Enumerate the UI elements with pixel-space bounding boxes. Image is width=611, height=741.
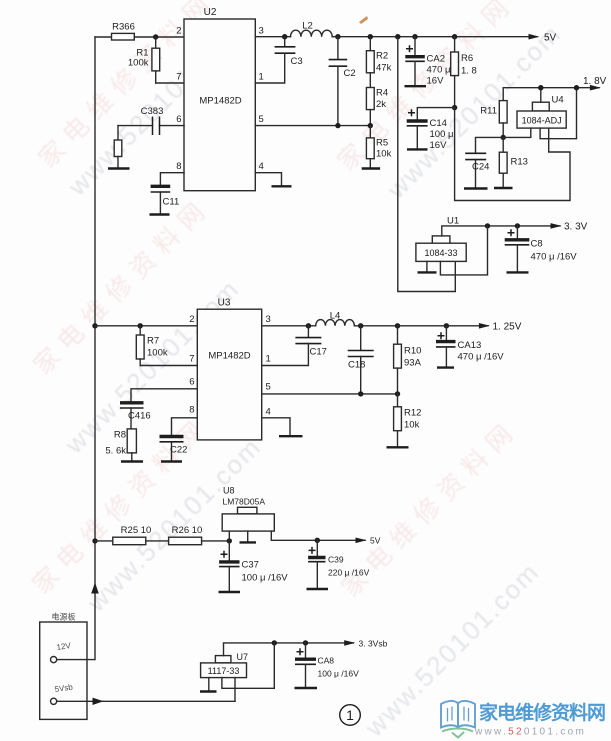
svg-text:16V: 16V (427, 76, 445, 87)
svg-text:2: 2 (176, 26, 181, 37)
svg-text:U7: U7 (237, 652, 249, 662)
resistor R26 (169, 525, 203, 545)
capacitor C22 (160, 437, 188, 462)
capacitor C14 (407, 109, 454, 151)
ground below C37 (219, 591, 241, 593)
ground below C24 (464, 187, 488, 189)
ground below CA13 (437, 366, 454, 368)
ground below C14 (407, 148, 428, 150)
regulator U4 1084-ADJ (517, 95, 566, 129)
wire U3 pin 5 (262, 393, 398, 395)
node C8 top (515, 223, 520, 228)
capacitor C3 (275, 37, 303, 67)
node C2 top (335, 34, 340, 39)
arrow 1.25V output (479, 322, 522, 333)
svg-text:1: 1 (266, 354, 271, 365)
svg-text:C24: C24 (472, 162, 489, 173)
watermark row red upper-right (332, 0, 520, 176)
resistor R2 (366, 37, 391, 74)
wire C383 left (118, 125, 153, 127)
resistor R1 (128, 37, 160, 83)
svg-text:C2: C2 (344, 68, 356, 79)
node U1 out (485, 223, 490, 228)
resistor R7 (136, 326, 168, 366)
wire 1.8V rail (503, 88, 599, 101)
wire R1 to U2 pin 7 (156, 82, 184, 84)
svg-text:1084-33: 1084-33 (424, 248, 457, 258)
node C3 top (282, 34, 287, 39)
svg-text:100 μ /16V: 100 μ /16V (242, 573, 289, 584)
ground U7 (200, 678, 217, 692)
svg-text:R2: R2 (376, 51, 388, 62)
svg-text:R25 10: R25 10 (121, 525, 152, 536)
wire top input to R366 (95, 36, 112, 38)
capacitor C8 (505, 226, 578, 272)
svg-text:10k: 10k (376, 149, 392, 160)
wire left rail to U3 pin 2 (95, 325, 197, 327)
wire U2 pin 6 to C383 (160, 125, 185, 127)
node R11 R13 junction (501, 135, 506, 140)
wire 5Vsb terminal to U7 input (57, 700, 235, 702)
resistor R366 (112, 22, 135, 41)
resistor R12 (394, 394, 422, 447)
regulator U7 1117-33 (201, 652, 248, 678)
node left rail R25 branch (92, 538, 97, 543)
ground below R12 (387, 446, 409, 448)
svg-text:电源板: 电源板 (52, 612, 76, 622)
watermark row red middle-left (28, 192, 216, 380)
watermark row grey upper-left (61, 15, 248, 202)
svg-text:1: 1 (259, 72, 264, 83)
svg-text:220 μ /16V: 220 μ /16V (328, 568, 370, 578)
capacitor C416 (120, 403, 151, 429)
capacitor C18 (348, 326, 374, 394)
arrow 12V up on left rail (91, 583, 99, 594)
ground below C39 (307, 588, 329, 590)
wire U7 out pin loop (222, 643, 274, 688)
svg-text:R5: R5 (376, 138, 388, 149)
svg-text:470 μ: 470 μ (427, 65, 451, 76)
node CA2 top (412, 34, 417, 39)
svg-text:C383: C383 (141, 106, 164, 117)
svg-text:CA2: CA2 (427, 54, 445, 65)
svg-text:C416: C416 (128, 411, 151, 422)
ground below CA8 (295, 687, 318, 689)
svg-text:16V: 16V (430, 140, 448, 151)
svg-text:470 μ /16V: 470 μ /16V (458, 352, 505, 363)
regulator U1 1084-33 (416, 216, 466, 262)
svg-text:R26 10: R26 10 (172, 525, 203, 536)
wire U2 pin 4 to ground (255, 173, 281, 186)
capacitor C11 (151, 186, 180, 214)
regulator U8 LM78D05A (222, 486, 274, 532)
inductor L4 (316, 311, 355, 326)
watermark row grey middle-left (58, 273, 245, 460)
op-amp U3 MP1482D (197, 298, 261, 440)
node C39 top (315, 538, 320, 543)
wire U4 ADJ pin to junction (503, 128, 531, 137)
wire U2 pin 8 to C11 (160, 173, 184, 185)
resistor unlabeled below C383 (114, 126, 122, 168)
inductor L2 (291, 21, 333, 37)
wire 5V branch down to U1 input (398, 37, 456, 292)
wire left rail to R25 (95, 540, 113, 542)
svg-text:3: 3 (259, 26, 264, 37)
wire 12V terminal to left rail (57, 659, 95, 661)
wire U4 tab to 1.8V rail (540, 88, 542, 103)
wire U3 pin 6 branch (131, 389, 197, 402)
svg-text:7: 7 (176, 72, 181, 83)
wire C3 bottom to U2 pin 1 (255, 53, 284, 83)
arrow 3.3V standby output (344, 639, 387, 649)
svg-text:3. 3Vsb: 3. 3Vsb (359, 639, 388, 649)
svg-text:R13: R13 (511, 157, 528, 168)
node 5V rail to U1 branch (395, 34, 400, 39)
node junction R1 top (153, 34, 158, 39)
capacitor C17 (295, 326, 327, 358)
ground below C11 (150, 213, 170, 215)
wire C14 branch (417, 108, 454, 120)
svg-text:4: 4 (266, 407, 271, 418)
wire U1 out pin loop (440, 226, 487, 275)
resistor R11 (480, 101, 507, 138)
svg-text:100 μ /16V: 100 μ /16V (318, 669, 360, 679)
resistor R10 (394, 326, 422, 394)
node CA8 top (303, 640, 308, 645)
node U4 out rail (574, 85, 579, 90)
wire U7 tab to 3.3Vsb rail (224, 643, 354, 656)
svg-text:1. 25V: 1. 25V (493, 322, 522, 333)
wire R7 to U3 pin 7 (140, 365, 197, 367)
svg-text:C11: C11 (163, 197, 180, 208)
svg-text:2: 2 (189, 314, 194, 325)
svg-text:1: 1 (346, 707, 354, 723)
wire U2 pin 5 (255, 125, 370, 127)
svg-text:U4: U4 (552, 95, 564, 106)
arrow 5Vsb direction (93, 698, 104, 705)
ground U1 (418, 261, 437, 272)
svg-text:R11: R11 (480, 106, 497, 117)
node R10 top (395, 323, 400, 328)
ground below R13 (494, 187, 513, 189)
svg-text:1. 8: 1. 8 (461, 66, 477, 77)
wire U8 input pin (228, 531, 230, 541)
svg-text:LM78D05A: LM78D05A (223, 497, 266, 507)
wire U4 input loop from C14 node (455, 108, 570, 201)
svg-text:93A: 93A (404, 358, 422, 369)
node C2 bottom on pin5 wire (335, 123, 340, 128)
svg-text:100k: 100k (147, 348, 168, 359)
svg-text:5V: 5V (544, 33, 557, 44)
svg-text:8: 8 (189, 405, 194, 416)
node U7 out (272, 640, 277, 645)
wire R25 to R26 (146, 540, 169, 542)
node R6 top (452, 34, 457, 39)
node R4 R5 junction (368, 123, 373, 128)
terminal 12V (51, 641, 73, 663)
svg-text:www.520101.com: www.520101.com (474, 727, 586, 738)
svg-text:CA13: CA13 (458, 340, 482, 351)
node C18 top (358, 323, 363, 328)
node R7 top (138, 323, 143, 328)
node R6 bottom C14 junction (452, 105, 457, 110)
svg-text:5V: 5V (370, 536, 381, 546)
capacitor CA13 (436, 326, 504, 367)
wire U7 input pin (234, 678, 236, 702)
node C18 bottom (358, 391, 363, 396)
wire C17 bottom to U3 pin 1 (262, 344, 309, 366)
svg-text:C14: C14 (430, 118, 447, 129)
svg-text:1084-ADJ: 1084-ADJ (522, 116, 562, 126)
svg-text:5. 6k: 5. 6k (105, 446, 126, 457)
watermark row grey lower-left (80, 431, 267, 618)
watermark row grey upper-right (380, 18, 567, 205)
stray orange mark (359, 16, 368, 24)
svg-text:470 μ /16V: 470 μ /16V (531, 252, 578, 263)
svg-text:U2: U2 (204, 7, 217, 18)
svg-text:8: 8 (176, 161, 181, 172)
wire U2 pin 3 output rail to 5V (255, 36, 537, 38)
connector P1 power board (40, 612, 87, 720)
node R10 R12 junction (395, 391, 400, 396)
ground below CA2 (405, 85, 427, 87)
wire U3 pin 3 output rail to 1.25V (262, 325, 488, 327)
svg-text:C17: C17 (310, 347, 327, 358)
svg-text:10k: 10k (404, 420, 420, 431)
ground below C383 resistor (108, 167, 130, 169)
svg-text:MP1482D: MP1482D (208, 351, 250, 362)
svg-text:R366: R366 (112, 22, 135, 33)
svg-text:1117-33: 1117-33 (208, 666, 240, 676)
svg-text:C37: C37 (242, 560, 259, 571)
arrow 1.8V output (583, 76, 607, 91)
svg-text:L4: L4 (330, 311, 341, 322)
watermark row red lower-right (336, 414, 524, 602)
resistor R5 (366, 126, 391, 168)
wire U8 output pin (271, 531, 365, 540)
op-amp U2 MP1482D (184, 7, 255, 191)
node left rail U3 branch (92, 323, 97, 328)
node CA13 top (444, 323, 449, 328)
svg-text:CA8: CA8 (318, 656, 335, 666)
svg-text:L2: L2 (302, 21, 313, 32)
capacitor C39 (308, 540, 370, 588)
svg-text:100k: 100k (128, 58, 149, 69)
node R2 top (368, 34, 373, 39)
arrow 5V standby output (356, 536, 381, 546)
logo book icon (441, 701, 475, 738)
svg-text:5: 5 (266, 382, 271, 393)
svg-text:C39: C39 (328, 555, 344, 565)
resistor R13 (499, 137, 528, 187)
capacitor C2 (329, 37, 356, 126)
svg-text:R4: R4 (376, 88, 388, 99)
svg-text:U1: U1 (447, 216, 459, 227)
svg-text:C18: C18 (348, 360, 365, 371)
svg-text:2k: 2k (376, 99, 386, 110)
svg-text:5: 5 (259, 114, 264, 125)
svg-text:C8: C8 (531, 239, 543, 250)
svg-text:4: 4 (259, 161, 264, 172)
svg-text:R8: R8 (114, 430, 126, 441)
ground below C8 (507, 271, 529, 273)
svg-text:家电维修资料网: 家电维修资料网 (28, 192, 216, 380)
svg-text:C3: C3 (291, 56, 303, 67)
wire 12V left rail (94, 37, 96, 660)
arrow 3.3V output (551, 222, 588, 233)
svg-text:7: 7 (189, 354, 194, 365)
ground U3 pin 4 (279, 435, 303, 437)
resistor R25 (113, 525, 152, 545)
wire U3 pin 4 to ground (262, 418, 290, 436)
wire R26 to U8 input (202, 540, 230, 542)
svg-text:R10: R10 (404, 346, 421, 357)
svg-text:6: 6 (189, 377, 194, 388)
ground below C22 (161, 460, 182, 462)
wire U4 OUT pin to 1.8V rail (540, 88, 576, 139)
svg-text:R12: R12 (404, 408, 421, 419)
svg-text:U3: U3 (218, 298, 231, 309)
ground below R5 (362, 167, 380, 169)
svg-text:6: 6 (176, 114, 181, 125)
svg-text:100 μ: 100 μ (430, 129, 454, 140)
node U8 input C37 (227, 538, 232, 543)
svg-text:MP1482D: MP1482D (199, 96, 241, 107)
page number circled 1 (340, 705, 361, 726)
arrow 5V output (529, 33, 557, 44)
wire U1 tab to 3.3V rail (442, 226, 560, 236)
resistor R8 (105, 429, 136, 461)
svg-text:1. 8V: 1. 8V (583, 76, 607, 87)
svg-text:C22: C22 (170, 445, 187, 456)
watermark row red lower-left (27, 411, 215, 599)
node U4 tab rail (538, 85, 543, 90)
capacitor C383 (141, 106, 164, 135)
wire R366 to U2 pin 2 (134, 36, 184, 38)
node C17 top (306, 323, 311, 328)
svg-text:U8: U8 (223, 486, 235, 496)
capacitor C37 (219, 541, 288, 592)
resistor R4 (366, 73, 388, 126)
ground U8 (240, 531, 257, 542)
svg-text:R7: R7 (147, 336, 159, 347)
svg-text:家电维修资料网: 家电维修资料网 (479, 701, 605, 724)
capacitor CA8 (295, 643, 359, 688)
capacitor CA2 (405, 37, 450, 87)
watermark row grey lower-right (358, 556, 545, 741)
svg-text:3: 3 (266, 314, 271, 325)
watermark row red upper-left (33, 0, 221, 173)
ground U2 pin 4 (272, 185, 292, 187)
terminal 5Vsb (51, 682, 74, 704)
ground below R8 (121, 460, 143, 462)
svg-text:3. 3V: 3. 3V (564, 222, 588, 233)
wire U3 pin 8 branch (172, 418, 198, 436)
capacitor C24 (465, 137, 503, 188)
svg-text:R6: R6 (461, 53, 473, 64)
svg-text:47k: 47k (376, 63, 392, 74)
resistor R6 (451, 37, 477, 108)
